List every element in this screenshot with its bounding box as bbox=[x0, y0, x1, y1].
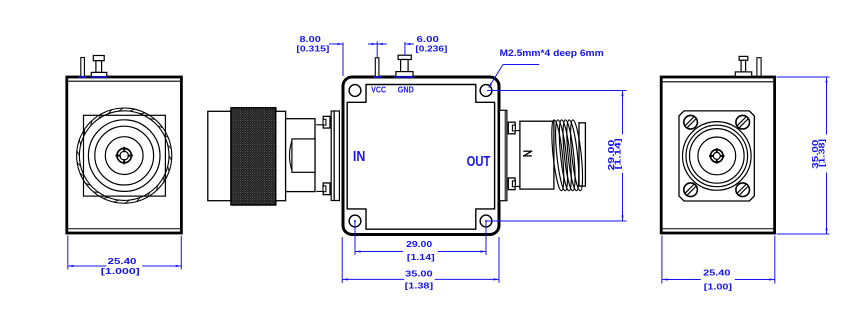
left view blue pad mark under VCC pin bbox=[79, 76, 87, 78]
right view center contact outer bbox=[711, 150, 724, 163]
blue center dot bottom-right hole bbox=[485, 220, 487, 222]
IN connector upper mounting screw (side view) bbox=[323, 116, 330, 128]
dim v29 extension top bbox=[487, 90, 627, 92]
blue pad mark under body GND pin bbox=[395, 76, 415, 78]
right view lid seam line bbox=[663, 81, 774, 83]
IN connector knurled nut bbox=[231, 108, 276, 205]
right view center contact slot ticks bbox=[709, 148, 724, 163]
IN connector gasket plate (edge view) bbox=[334, 111, 339, 201]
OUT connector upper mounting screw (side view) bbox=[508, 122, 515, 134]
left view GND solder pin stem bbox=[96, 61, 102, 73]
left view dim line right segment bbox=[142, 265, 181, 267]
svg-text:[1.00]: [1.00] bbox=[704, 282, 733, 291]
svg-text:M2.5mm*4 deep 6mm: M2.5mm*4 deep 6mm bbox=[500, 47, 604, 58]
right view connector flange bbox=[679, 111, 754, 201]
right dim 25.40 line left segment bbox=[662, 279, 701, 281]
dim 29.00 arrow left bbox=[355, 250, 361, 252]
OUT connector N marking bbox=[524, 151, 532, 156]
dim 29.00 arrow right bbox=[480, 250, 486, 252]
right dim 35.00 arrow bottom bbox=[825, 228, 827, 234]
left view dim extension line right bbox=[180, 236, 182, 270]
IN connector back cap bbox=[208, 111, 231, 200]
right view screw top-left bbox=[684, 115, 698, 129]
amplifier body outline bbox=[343, 77, 499, 235]
right view GND pin base bbox=[735, 72, 751, 77]
right view flange outer ring bbox=[683, 122, 752, 191]
OUT connector flange inner line bbox=[504, 111, 506, 200]
IN connector flange plate (edge view) bbox=[331, 111, 334, 201]
corner hole bottom-left bbox=[349, 215, 361, 227]
left view dim arrow left bbox=[68, 265, 74, 267]
left view square mounting plate bbox=[84, 115, 166, 196]
left view blue pad mark under GND pin bbox=[91, 76, 108, 78]
dim 8.00 extension at body edge bbox=[342, 43, 344, 77]
right dim 35.00 line top segment bbox=[826, 77, 828, 135]
right view VCC pin bbox=[757, 58, 761, 76]
blue center dot bottom-left hole bbox=[354, 220, 356, 222]
dim v29 extension bottom bbox=[487, 220, 627, 222]
dim 29.00 line right segment bbox=[438, 251, 486, 253]
svg-text:GND: GND bbox=[398, 86, 414, 95]
dim 29.00 extension left bbox=[354, 222, 356, 255]
svg-text:IN: IN bbox=[353, 149, 365, 165]
svg-text:[1.14]: [1.14] bbox=[614, 138, 623, 169]
dim 35.00 extension right bbox=[498, 237, 500, 283]
dim 8.00 line bbox=[329, 43, 343, 45]
corner hole top-left bbox=[349, 85, 361, 97]
left view dim extension line left bbox=[67, 236, 69, 270]
right dim 35.00 arrow top bbox=[825, 77, 827, 83]
svg-text:OUT: OUT bbox=[467, 153, 491, 170]
dim 35.00 extension left bbox=[341, 237, 343, 283]
dim v29 line bottom segment bbox=[622, 173, 624, 221]
left view center contact outer bbox=[117, 148, 131, 162]
left view GND solder pin base bbox=[91, 72, 107, 76]
dim 8.00 arrow at body edge bbox=[337, 43, 343, 45]
dim v29 arrow bottom bbox=[621, 215, 623, 221]
svg-text:[1.38]: [1.38] bbox=[405, 282, 434, 291]
svg-text:29.00: 29.00 bbox=[406, 240, 433, 249]
right view center contact inner bbox=[713, 152, 720, 159]
dim 6.00 arrow at VCC pin bbox=[372, 43, 378, 45]
left view enclosure box bbox=[67, 77, 182, 233]
left view center contact slot ticks bbox=[116, 147, 133, 164]
svg-text:25.40: 25.40 bbox=[108, 257, 138, 266]
svg-text:[1.000]: [1.000] bbox=[101, 267, 140, 276]
left view nut ring bbox=[88, 120, 160, 192]
IN connector lower mounting screw (side view) bbox=[323, 183, 330, 195]
OUT connector thread turns bbox=[549, 119, 585, 191]
svg-text:8.00: 8.00 bbox=[300, 35, 322, 44]
body GND pin cap bbox=[398, 55, 411, 59]
svg-text:[0.315]: [0.315] bbox=[296, 45, 329, 54]
left view knurled coupling nut outer circle bbox=[77, 108, 172, 203]
left view knurled coupling nut inner circle bbox=[79, 111, 169, 201]
right view screw bottom-left bbox=[684, 183, 698, 197]
IN connector inner sleeve bbox=[292, 139, 315, 172]
right dim 25.40 line right segment bbox=[735, 279, 775, 281]
right view enclosure box bbox=[661, 77, 774, 233]
left view VCC feedthrough pin bbox=[81, 58, 85, 77]
body GND pin base bbox=[396, 72, 413, 77]
left view GND solder pin cap bbox=[93, 56, 104, 61]
right dim 35.00 extension bottom bbox=[777, 233, 830, 235]
right view connector inner ring bbox=[698, 137, 736, 175]
corner hole bottom-right bbox=[480, 215, 492, 227]
left view bottom seam line bbox=[68, 228, 180, 230]
svg-text:25.40: 25.40 bbox=[703, 268, 731, 277]
left view dim line left segment bbox=[68, 265, 107, 267]
corner hole top-right bbox=[480, 85, 492, 97]
right dim 35.00 extension top bbox=[777, 76, 830, 78]
right dim 25.40 arrow right bbox=[769, 278, 775, 280]
dim 29.00 extension right bbox=[485, 222, 487, 255]
svg-text:[1.14]: [1.14] bbox=[407, 253, 435, 262]
right dim 25.40 arrow left bbox=[662, 278, 668, 280]
right view GND pin stem bbox=[741, 60, 746, 72]
OUT connector barrel bbox=[520, 121, 554, 189]
right view connector ring 3 bbox=[690, 129, 745, 184]
dim v29 arrow top bbox=[621, 91, 623, 97]
IN connector step collar bbox=[276, 111, 286, 200]
note leader diagonal bbox=[489, 65, 503, 88]
dim 6.00 tail right bbox=[405, 43, 414, 45]
dim 8.00 arrow at pin bbox=[377, 43, 383, 45]
dim 6.00 tail left of pin bbox=[368, 43, 377, 45]
right view flange ring 2 bbox=[686, 125, 748, 187]
svg-text:VCC: VCC bbox=[371, 86, 386, 95]
left view connector inner ring bbox=[105, 137, 143, 175]
dim 29.00 line left segment bbox=[355, 251, 403, 253]
blue pad mark under body VCC pin bbox=[373, 76, 382, 78]
body GND pin stem bbox=[401, 60, 409, 72]
right view GND pin cap bbox=[739, 56, 748, 60]
IN connector barrel bbox=[286, 119, 315, 192]
dim 35.00 arrow right bbox=[493, 278, 499, 280]
right view bottom seam line bbox=[663, 228, 774, 230]
OUT connector end cap bbox=[579, 123, 585, 186]
dim 6.00 arrow at GND pin bbox=[405, 43, 411, 45]
OUT connector flange plate (edge view) bbox=[500, 110, 507, 200]
pin extension line VCC bbox=[376, 41, 378, 57]
OUT connector lower mounting screw (side view) bbox=[508, 178, 515, 190]
dim v29 line top segment bbox=[622, 91, 624, 135]
right view screw top-right bbox=[736, 115, 750, 129]
dim 35.00 line right segment bbox=[435, 278, 499, 280]
IN connector sleeve cap arc bbox=[290, 141, 292, 170]
pin extension line GND bbox=[404, 42, 406, 55]
dim 35.00 arrow left bbox=[342, 278, 348, 280]
svg-text:[1.38]: [1.38] bbox=[818, 139, 827, 167]
left view center contact inner bbox=[120, 151, 129, 160]
svg-text:[0.236]: [0.236] bbox=[415, 45, 447, 54]
svg-text:6.00: 6.00 bbox=[417, 35, 440, 44]
dim 35.00 line left segment bbox=[342, 278, 404, 280]
note leader arrowhead bbox=[488, 83, 492, 88]
left view dim arrow right bbox=[176, 265, 182, 267]
left view connector body ring bbox=[95, 126, 154, 185]
left view knurl serration ticks bbox=[77, 108, 172, 203]
dim 8.00 tail at pin bbox=[377, 43, 387, 45]
left view lid seam line bbox=[68, 80, 180, 82]
svg-text:35.00: 35.00 bbox=[405, 270, 433, 279]
note leader horizontal bbox=[503, 64, 539, 66]
right dim 25.40 extension right bbox=[774, 236, 776, 284]
body VCC pin bbox=[375, 58, 379, 77]
right dim 35.00 line bottom segment bbox=[826, 173, 828, 235]
amplifier lid inner outline bbox=[347, 85, 494, 230]
right view screw bottom-right bbox=[736, 183, 750, 197]
right dim 25.40 extension left bbox=[661, 236, 663, 284]
